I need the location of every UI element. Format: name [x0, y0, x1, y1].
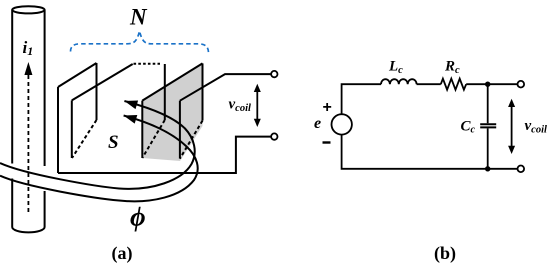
svg-text:e: e [314, 115, 321, 132]
svg-text:S: S [108, 132, 119, 153]
svg-text:Lc: Lc [388, 59, 403, 77]
conductor cylinder [12, 6, 44, 232]
svg-text:(a): (a) [112, 243, 133, 264]
source - sign [323, 141, 331, 143]
svg-text:i1: i1 [23, 38, 34, 58]
turn vertical V3 [71, 100, 73, 158]
bottom wire [342, 135, 518, 169]
turn back vertical V7 [202, 63, 204, 120]
junction dot top [485, 82, 490, 87]
source e circle [332, 114, 352, 134]
v_coil double arrow (a) [254, 84, 261, 127]
turn back vertical V4 [164, 64, 166, 120]
turn top slant S1 [58, 63, 97, 87]
coil left group [58, 63, 160, 173]
turn wire V1 front vertical [57, 87, 59, 173]
turn top slant S2 [72, 64, 133, 100]
cylinder top ellipse [12, 6, 44, 13]
cylinder bottom arc [12, 227, 44, 232]
capacitor Cc plates [480, 124, 496, 127]
terminal bottom (a) [271, 133, 277, 139]
svg-text:ϕ: ϕ [130, 202, 146, 232]
turn top slant S3 [142, 63, 202, 100]
svg-text:Cc: Cc [461, 119, 476, 136]
flux line 2 (lower) [0, 116, 198, 202]
turn front vertical V5 [179, 101, 181, 159]
cylinder left edge [11, 10, 13, 227]
svg-text:vcoil: vcoil [525, 118, 547, 136]
terminal bottom (b) [518, 166, 525, 173]
hidden bottom dashed D1 [72, 120, 97, 158]
hidden bottom dashed D2 [142, 120, 165, 158]
inductor Lc [381, 79, 417, 84]
blue dashed brace [71, 31, 209, 53]
junction dot bottom [485, 166, 490, 171]
coil right group [142, 63, 202, 158]
terminal top (b) [518, 81, 525, 88]
gray ribbon fill of right coil turns [142, 63, 202, 161]
capacitor branch wires [487, 84, 489, 169]
flux line 1 (upper) [0, 101, 195, 189]
turn vertical V6 [141, 101, 143, 158]
terminal top (a) [271, 71, 277, 77]
svg-text:(b): (b) [434, 243, 456, 264]
hidden bottom dashed D3 [180, 121, 203, 159]
wire inductor to resistor [417, 83, 441, 85]
flux arrow 2 [124, 115, 138, 124]
svg-text:N: N [129, 5, 148, 30]
winding ellipsis dashed [134, 63, 161, 65]
resistor Rc [441, 79, 466, 90]
flux arrow 1 [124, 101, 138, 110]
current axis dashed arrow [27, 75, 29, 213]
coil output top wire [180, 74, 271, 101]
v_coil double arrow (b) [508, 99, 515, 154]
wire top left [342, 84, 381, 114]
svg-text:Rc: Rc [444, 59, 460, 77]
svg-text:vcoil: vcoil [229, 97, 251, 115]
turn back vertical V2 [96, 63, 98, 120]
cylinder right edge [44, 10, 46, 227]
svg-text:+: + [323, 99, 332, 116]
coil output bottom wire / frame [58, 137, 271, 173]
wire resistor to node and terminal [466, 83, 517, 85]
current arrowhead [24, 62, 32, 75]
